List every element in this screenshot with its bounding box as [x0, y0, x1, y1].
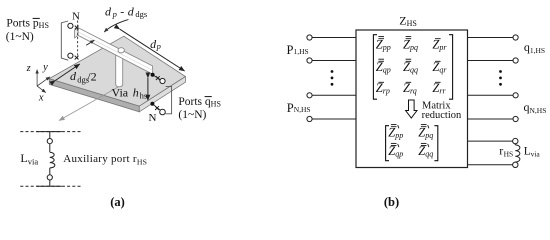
- svg-text:r: r: [499, 144, 503, 158]
- svg-text:dgs: dgs: [135, 9, 147, 19]
- svg-text:L: L: [20, 151, 27, 165]
- svg-text:(a): (a): [110, 195, 125, 209]
- svg-text:N,HS: N,HS: [530, 106, 547, 115]
- svg-text:/2: /2: [87, 69, 96, 83]
- svg-text:(1~N): (1~N): [6, 31, 34, 43]
- svg-text:via: via: [28, 157, 39, 167]
- svg-text:N,HS: N,HS: [294, 105, 311, 114]
- svg-text:hs: hs: [140, 91, 148, 101]
- svg-text:1,HS: 1,HS: [294, 47, 309, 56]
- svg-text:(1~N): (1~N): [178, 109, 206, 121]
- svg-text:ZHS: ZHS: [399, 13, 417, 28]
- svg-text:Auxiliary port rHS: Auxiliary port rHS: [63, 153, 147, 167]
- svg-text:d: d: [105, 4, 112, 18]
- svg-text:h: h: [133, 86, 139, 100]
- svg-text:1,HS: 1,HS: [530, 46, 545, 55]
- svg-text:x: x: [38, 93, 44, 104]
- svg-text:-: -: [120, 4, 124, 18]
- svg-text:P: P: [287, 43, 294, 57]
- svg-text:y: y: [42, 62, 48, 73]
- svg-text:N: N: [72, 10, 80, 22]
- svg-text:N: N: [149, 112, 157, 124]
- svg-text:Ports pHS: Ports pHS: [6, 18, 49, 31]
- svg-text:HS: HS: [504, 150, 514, 159]
- svg-text:z: z: [26, 63, 31, 74]
- svg-text:p: p: [112, 9, 117, 19]
- svg-text:p: p: [156, 41, 161, 51]
- svg-text:P: P: [287, 101, 294, 115]
- svg-text:via: via: [531, 150, 541, 159]
- svg-text:(b): (b): [384, 195, 399, 209]
- svg-text:d: d: [70, 69, 77, 83]
- svg-text:d: d: [128, 4, 135, 18]
- svg-text:Ports qHS: Ports qHS: [178, 96, 221, 109]
- svg-text:reduction: reduction: [422, 110, 462, 121]
- svg-text:Via: Via: [112, 86, 129, 100]
